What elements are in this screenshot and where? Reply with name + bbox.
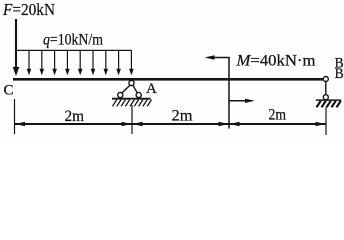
svg-text:A: A	[146, 81, 157, 97]
moment top arm (left arrow)	[205, 55, 230, 59]
force F arrow	[13, 19, 20, 76]
load arrow x=93.0	[91, 50, 96, 75]
distributed load top line	[15, 49, 132, 51]
svg-text:C: C	[4, 83, 14, 99]
roller support B: bottom circle	[323, 95, 328, 100]
svg-text:2m: 2m	[65, 108, 85, 125]
pin support A hatch	[113, 100, 152, 107]
load arrow x=54.6	[52, 50, 57, 75]
load arrow x=67.4	[65, 50, 70, 75]
pin support A	[112, 80, 151, 98]
load arrow x=118.6	[116, 50, 121, 75]
roller support B: vertical link	[325, 82, 327, 95]
roller support B: pin circle at beam end	[323, 77, 328, 82]
svg-text:2m: 2m	[172, 107, 193, 124]
dimension extension tick at A	[131, 105, 133, 134]
svg-text:B: B	[335, 66, 344, 82]
moment bottom arm (right arrow)	[229, 99, 255, 103]
load arrow x=80.2	[78, 50, 83, 75]
load arrow x=105.8	[104, 50, 109, 75]
dimension extension tick at B	[325, 108, 327, 136]
distributed load arrows	[27, 50, 134, 75]
load arrow x=29	[27, 50, 32, 75]
dimension line	[15, 123, 327, 125]
beam CB	[13, 78, 324, 81]
dimension arrowheads	[15, 122, 326, 126]
load arrow x=41.8	[40, 50, 45, 75]
svg-text:F=20kN: F=20kN	[2, 0, 55, 19]
svg-text:M=40kN·m: M=40kN·m	[235, 53, 316, 70]
moment couple M vertical line	[228, 58, 230, 129]
dimension extension tick at C	[14, 99, 16, 134]
load arrow x=131.4	[129, 50, 134, 75]
svg-text:q=10kN/m: q=10kN/m	[43, 31, 103, 48]
svg-text:2m: 2m	[269, 107, 287, 124]
roller support B: ground hatch	[317, 101, 341, 108]
roller support B: ground line	[316, 99, 341, 101]
